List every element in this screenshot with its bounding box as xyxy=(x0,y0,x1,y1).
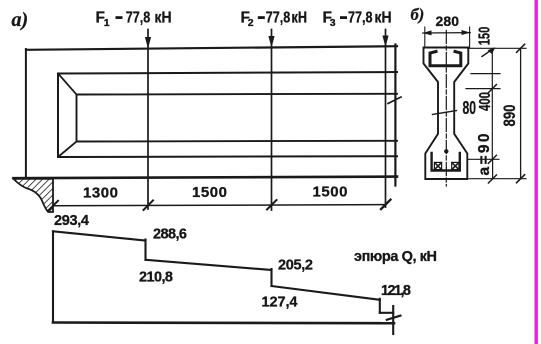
svg-text:121,8: 121,8 xyxy=(381,283,411,299)
svg-text:205,2: 205,2 xyxy=(278,258,313,274)
svg-text:288,6: 288,6 xyxy=(153,227,187,243)
svg-text:эпюра Q, кН: эпюра Q, кН xyxy=(354,249,437,265)
svg-text:кН: кН xyxy=(155,10,172,27)
svg-text:б): б) xyxy=(411,5,425,24)
svg-text:3: 3 xyxy=(330,17,336,29)
svg-text:890: 890 xyxy=(500,105,519,127)
svg-text:77,8: 77,8 xyxy=(126,10,151,27)
svg-text:400: 400 xyxy=(477,92,494,111)
svg-text:77,8: 77,8 xyxy=(348,10,373,27)
svg-text:1300: 1300 xyxy=(83,185,118,202)
svg-text:а): а) xyxy=(12,9,29,31)
svg-text:150: 150 xyxy=(476,27,493,46)
svg-text:80: 80 xyxy=(462,98,476,118)
svg-text:2: 2 xyxy=(248,17,254,29)
svg-text:210,8: 210,8 xyxy=(139,270,173,286)
svg-text:1500: 1500 xyxy=(313,184,348,201)
svg-text:a=90: a=90 xyxy=(476,134,493,176)
svg-text:293,4: 293,4 xyxy=(54,213,89,229)
svg-text:127,4: 127,4 xyxy=(262,295,298,311)
svg-text:280: 280 xyxy=(436,13,460,29)
svg-text:77,8: 77,8 xyxy=(266,10,291,27)
svg-text:1: 1 xyxy=(104,17,110,29)
svg-text:кН: кН xyxy=(375,10,392,27)
svg-text:кН: кН xyxy=(292,10,308,27)
svg-text:1500: 1500 xyxy=(192,184,227,201)
